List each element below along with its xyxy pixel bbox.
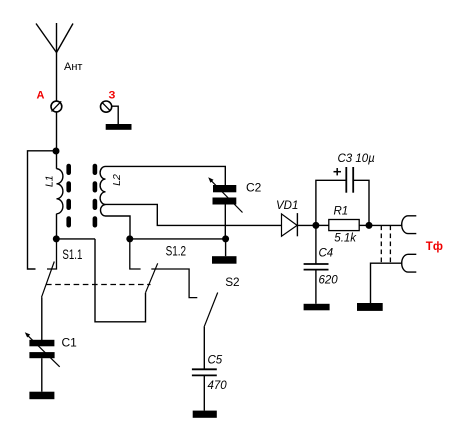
phone jack lower bbox=[402, 254, 417, 272]
wire З to ground bbox=[112, 106, 119, 124]
wire S1.2 arm feed bbox=[95, 239, 146, 322]
wire rail left segment bbox=[57, 238, 96, 240]
svg-text:S2: S2 bbox=[225, 275, 239, 289]
svg-text:C5: C5 bbox=[208, 355, 223, 367]
ground (earth bar) bbox=[106, 124, 132, 130]
wire R1 leads bbox=[316, 224, 369, 226]
switch S1.1 bbox=[42, 239, 57, 297]
resistor R1 bbox=[329, 220, 359, 231]
svg-text:5.1k: 5.1k bbox=[334, 233, 357, 245]
wire L2 top to C2 bbox=[106, 166, 226, 185]
svg-text:Тф: Тф bbox=[426, 241, 443, 253]
svg-text:C3 10µ: C3 10µ bbox=[338, 153, 376, 165]
svg-text:А: А bbox=[37, 90, 45, 102]
capacitor C2 (variable) bbox=[208, 177, 242, 212]
svg-text:L1: L1 bbox=[44, 175, 56, 187]
svg-text:C4: C4 bbox=[319, 247, 334, 259]
phone jack upper bbox=[402, 216, 417, 234]
diode VD1 bbox=[282, 213, 298, 236]
capacitor C5 bbox=[192, 369, 217, 375]
svg-text:L2: L2 bbox=[111, 174, 123, 186]
wire rail right segment bbox=[130, 238, 226, 240]
svg-text:C2: C2 bbox=[246, 180, 262, 194]
svg-text:S1.2: S1.2 bbox=[166, 243, 187, 258]
ground below C4 bbox=[304, 304, 330, 311]
svg-text:470: 470 bbox=[208, 380, 228, 392]
svg-text:R1: R1 bbox=[334, 206, 349, 218]
wire L2 bottom to rail bbox=[106, 216, 131, 239]
inductor L2 bbox=[100, 166, 123, 216]
wire antenna lead bbox=[56, 53, 58, 102]
capacitor C4 bbox=[304, 225, 329, 303]
svg-text:З: З bbox=[109, 90, 116, 102]
wire C1 to ground bbox=[41, 358, 43, 392]
terminal A bbox=[51, 101, 62, 112]
inductor L1 bbox=[44, 169, 63, 214]
wire C5 to ground bbox=[203, 375, 205, 410]
wire L2 tap to diode bbox=[106, 204, 282, 225]
ground below phones bbox=[357, 303, 383, 311]
capacitor C3 (electrolytic) bbox=[316, 167, 369, 225]
wire S1.1 arm to C1 bbox=[41, 297, 43, 340]
wire L1 to rail bbox=[56, 214, 58, 239]
wire node to L1 bbox=[56, 151, 58, 169]
wire node to ground bbox=[225, 239, 227, 256]
svg-text:C1: C1 bbox=[62, 335, 78, 349]
ground below C2 bbox=[212, 256, 237, 264]
ground below C1 bbox=[29, 392, 54, 400]
wire C2 bottom to node bbox=[224, 205, 226, 239]
svg-text:620: 620 bbox=[319, 274, 339, 286]
svg-text:Ант: Ант bbox=[64, 61, 82, 73]
antenna bbox=[36, 23, 73, 53]
wire A to node bbox=[56, 112, 58, 151]
plug connection (dashed) bbox=[381, 226, 390, 264]
wire diode to node bbox=[297, 224, 316, 226]
transformer core bbox=[66, 164, 97, 228]
wire S2 to C5 bbox=[203, 326, 205, 369]
node R1 left bbox=[312, 222, 319, 229]
svg-text:S1.1: S1.1 bbox=[62, 247, 82, 262]
switch S2 bbox=[204, 293, 217, 327]
node L2 bottom bbox=[126, 235, 133, 242]
node antenna junction bbox=[53, 148, 60, 155]
wire to phones bbox=[369, 224, 402, 226]
node L1 bottom bbox=[53, 235, 60, 242]
capacitor C1 (variable) bbox=[25, 332, 60, 367]
wire left loop to S1.1 contact bbox=[28, 151, 57, 269]
ground below C5 bbox=[193, 411, 217, 418]
node R1 right bbox=[366, 222, 373, 229]
node C2 bottom bbox=[222, 235, 229, 242]
wire lower phone to ground bbox=[371, 263, 403, 303]
terminal З bbox=[101, 101, 112, 112]
label + bbox=[334, 168, 342, 175]
svg-text:VD1: VD1 bbox=[276, 200, 298, 212]
mechanical link (dashed) bbox=[46, 284, 151, 286]
switch S1.2 bbox=[130, 239, 198, 298]
